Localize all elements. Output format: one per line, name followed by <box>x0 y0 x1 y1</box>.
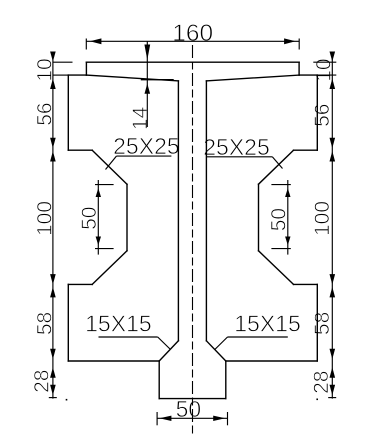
left bottom shelf <box>68 360 159 362</box>
dim 14 top arrow <box>144 45 150 61</box>
left inner 50 ext bottom <box>95 248 114 250</box>
left notch bottom shelf <box>68 283 92 285</box>
right 50 arrow down <box>285 237 290 246</box>
svg-text:50: 50 <box>268 208 291 231</box>
label 25X25 left underline <box>116 155 171 157</box>
label 25X25 right leader <box>272 157 282 169</box>
right inner 50 dim line <box>287 180 289 255</box>
right notch top shelf <box>294 149 318 151</box>
right notch bottom shelf <box>294 283 318 285</box>
left inner 50 dim line <box>97 180 99 255</box>
flange right edge vertical <box>298 62 300 75</box>
svg-text:15X15: 15X15 <box>85 311 152 337</box>
dim 160 extension ticks <box>85 39 87 50</box>
svg-text:25X25: 25X25 <box>113 133 180 159</box>
stray point bottom-left <box>66 399 68 401</box>
svg-text:50: 50 <box>78 207 101 230</box>
right flange underside slope <box>206 75 299 81</box>
right col arrow down at 361 <box>330 349 336 360</box>
svg-text:58: 58 <box>311 312 334 335</box>
left col arrow down at 361 <box>50 349 56 360</box>
block left vertical <box>158 361 160 399</box>
left chamfer 15x15 <box>159 341 178 361</box>
right outer vertical lower <box>316 284 318 361</box>
dim 160 right arrow <box>284 38 296 44</box>
left col arrow up at 361 <box>50 367 56 378</box>
block right vertical <box>225 361 227 399</box>
right dim column line <box>331 52 333 399</box>
left shelf at y75 <box>68 74 86 76</box>
left col arrow up at 284 <box>50 287 56 298</box>
right inner 50 ext bottom <box>271 248 290 250</box>
stray point bottom-right <box>316 399 318 401</box>
dim 160 left arrow <box>90 38 102 44</box>
left dim column end tick <box>49 397 57 399</box>
svg-text:100: 100 <box>311 201 334 236</box>
label 15X15 left leader <box>158 337 171 350</box>
right inner 50 ext top <box>271 184 290 186</box>
left col arrow down at 284 <box>50 274 56 285</box>
dim 14 extension line <box>146 41 148 127</box>
label 25X25 left leader <box>106 156 117 169</box>
svg-text:28: 28 <box>30 370 53 393</box>
right col arrow up at 284 <box>330 287 336 298</box>
right shelf at y75 <box>299 74 317 76</box>
right 50 arrow up <box>285 188 290 197</box>
svg-text:28: 28 <box>310 371 333 394</box>
left col arrow down at 398 <box>50 385 56 396</box>
left chamfer 25x25 bottom <box>92 251 127 285</box>
bottom 50 ext tick right <box>227 412 229 425</box>
svg-text:15X15: 15X15 <box>234 311 301 337</box>
left 50 arrow up <box>96 188 101 197</box>
left ext at y75 <box>53 74 68 76</box>
svg-text:14: 14 <box>129 106 152 130</box>
right ext at y75 <box>317 74 336 76</box>
svg-text:56: 56 <box>311 104 334 127</box>
right col arrow up at 75 <box>330 79 336 90</box>
left underside double segment <box>142 79 174 81</box>
right col arrow down at 284 <box>330 274 336 285</box>
bottom 50 left arrow <box>159 416 171 421</box>
left chamfer 25x25 top <box>92 150 127 184</box>
dim 160 line <box>86 40 299 42</box>
svg-text:160: 160 <box>172 20 213 47</box>
right chamfer 25x25 bottom <box>259 251 294 285</box>
bottom 50 right arrow <box>213 416 225 421</box>
right web vertical <box>205 81 207 341</box>
right col arrow down at 150 <box>330 138 336 149</box>
dim 14 bottom arrow <box>145 84 151 94</box>
left web vertical <box>177 81 179 341</box>
right notch vertical <box>258 184 260 251</box>
label 15X15 right underline <box>228 336 288 338</box>
left 50 arrow down <box>96 237 101 246</box>
right outer vertical upper <box>316 75 318 150</box>
centerline <box>192 45 194 437</box>
left notch top shelf <box>68 149 92 151</box>
left col arrow up at 75 <box>50 79 56 90</box>
label 15X15 right leader <box>215 337 228 350</box>
right col arrow up at 361 <box>330 367 336 378</box>
left col arrow down at 150 <box>50 138 56 149</box>
block bottom edge <box>159 398 226 400</box>
label 15X15 left underline <box>99 336 158 338</box>
left inner 50 ext top <box>95 184 114 186</box>
left dim column line <box>52 52 54 399</box>
flange left edge vertical <box>85 62 87 75</box>
top flange top edge <box>86 61 299 63</box>
right col arrow up at 150 <box>330 151 336 162</box>
bottom 50 ext tick left <box>156 412 158 425</box>
right dim column end tick <box>328 397 336 399</box>
left ext at y62 <box>53 61 73 63</box>
right bottom shelf <box>226 360 317 362</box>
left flange underside slope <box>86 75 178 81</box>
left col arrow up at 150 <box>50 151 56 162</box>
bottom 50 dim line <box>157 417 227 419</box>
right col arrow down at 62 <box>330 52 336 62</box>
left outer vertical lower <box>67 284 69 361</box>
left notch vertical <box>126 184 128 251</box>
right chamfer 15x15 <box>206 341 225 361</box>
right ext at y62 <box>313 61 336 63</box>
left outer vertical upper <box>67 75 69 150</box>
right chamfer 25x25 top <box>259 150 294 184</box>
left col arrow down at 62 <box>50 52 56 62</box>
right col arrow down at 398 <box>330 385 336 396</box>
label 25X25 right underline <box>207 156 273 158</box>
